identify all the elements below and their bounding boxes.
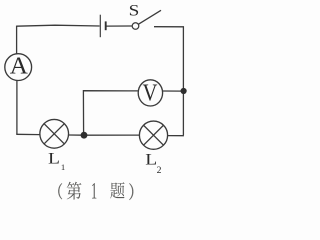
switch S [132,10,161,29]
lamp L2 [139,121,167,149]
label L1 [48,149,65,172]
wire bottom side: junction node to lamp L1 [69,134,84,136]
svg-text:1: 1 [61,162,65,172]
wire voltmeter branch: riser from junction and run to voltmeter [83,91,137,136]
svg-text:S: S [129,1,140,19]
svg-text:V: V [143,79,158,106]
caption text (第 1 题) [58,178,133,203]
wire top side: top-left corner to battery [17,25,100,26]
svg-text:A: A [10,53,28,80]
wire left side: top corner down to ammeter [16,26,18,55]
wire top side: battery to switch [106,25,132,27]
wire bottom side: bottom-left corner to lamp L1 [16,133,40,135]
wire voltmeter to right-side junction [163,90,184,92]
label L2 [145,150,161,176]
wire bottom side: lamp L2 to junction node [84,134,140,136]
ammeter A [5,53,32,81]
wire left side: ammeter down to bottom-left corner [16,80,18,134]
wire bottom side: bottom-right corner to lamp L2 [168,135,184,137]
voltmeter V [138,79,162,106]
node junction on right wire [181,88,187,94]
svg-text:L: L [48,149,60,167]
lamp L1 [40,119,69,148]
node junction on bottom wire [81,132,88,139]
wire top-right: switch to corner, down right side [154,27,183,136]
svg-text:1: 1 [91,178,97,203]
svg-text:2: 2 [157,165,162,176]
svg-text:L: L [145,150,157,168]
battery cell [100,15,105,38]
